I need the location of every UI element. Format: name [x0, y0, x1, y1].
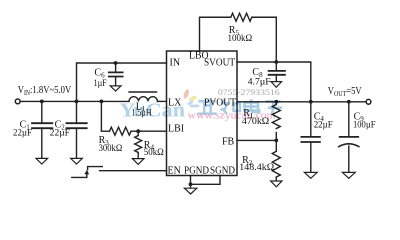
- svg-text:1µF: 1µF: [94, 79, 107, 89]
- wire: SVOUT pin: [237, 62, 311, 102]
- ground (C9): [342, 172, 355, 178]
- wire: FB pin: [237, 139, 276, 141]
- resistor R3: [110, 127, 132, 135]
- watermark: [120, 87, 283, 121]
- ground (R4): [132, 159, 144, 165]
- ground (C4): [304, 172, 317, 178]
- wire: main input rail: [20, 100, 129, 102]
- wire: riser to IN pin: [77, 63, 167, 101]
- svg-text:FB: FB: [222, 136, 235, 147]
- node: R4 junction: [136, 129, 140, 133]
- wire: PVOUT output rail: [237, 101, 366, 103]
- svg-text:100kΩ: 100kΩ: [228, 34, 253, 44]
- wire: LBO pin up: [200, 17, 231, 51]
- capacitor C8: [269, 62, 285, 81]
- input terminal VIN: [15, 99, 20, 104]
- ground (C1): [36, 158, 48, 164]
- watermark logo petals: [183, 89, 200, 107]
- wire: rail from inductor to LX pin: [158, 100, 167, 102]
- svg-text:148.4kΩ: 148.4kΩ: [239, 163, 274, 173]
- node: C2 / IN riser junction: [75, 100, 79, 104]
- wire: riser to R3: [101, 101, 109, 131]
- ground (C8): [271, 82, 282, 88]
- op-amp U1 (IC body): [167, 51, 238, 176]
- output terminal VOUT: [366, 99, 371, 104]
- svg-text:SVOUT: SVOUT: [204, 58, 235, 69]
- svg-text:300kΩ: 300kΩ: [99, 144, 123, 154]
- capacitor C4: [301, 102, 320, 172]
- node: C4 junction: [309, 100, 313, 104]
- node: C6 junction: [114, 61, 118, 65]
- svg-text:0755-27933516: 0755-27933516: [218, 87, 280, 97]
- svg-text:www.szyucan.com: www.szyucan.com: [188, 110, 276, 121]
- ground (C6): [110, 86, 121, 91]
- capacitor C6: [109, 63, 123, 86]
- wire: PGND stub: [190, 176, 192, 185]
- svg-text:50kΩ: 50kΩ: [144, 148, 164, 158]
- svg-text:IN: IN: [170, 58, 181, 69]
- svg-text:22µF: 22µF: [13, 129, 32, 139]
- svg-text:22µF: 22µF: [314, 121, 333, 131]
- svg-text:PVOUT: PVOUT: [204, 98, 236, 109]
- wire: R3 to LBI node: [131, 130, 166, 132]
- ground (IC): [184, 184, 196, 194]
- watermark CJK glyph blocks: [198, 99, 283, 114]
- inductor L1: [129, 92, 158, 101]
- svg-text:YuCan: YuCan: [120, 100, 186, 122]
- svg-text:4.7µF: 4.7µF: [248, 78, 271, 88]
- svg-text:SGND: SGND: [210, 166, 235, 177]
- node: R1 top junction: [274, 100, 278, 104]
- node: FB junction: [274, 139, 278, 143]
- ground (R2): [271, 181, 282, 187]
- node: C1 junction: [40, 100, 44, 104]
- node: C9 junction: [347, 100, 351, 104]
- node: R3 riser junction: [100, 100, 104, 104]
- wire: R5 to SVOUT node: [252, 17, 276, 62]
- node: PGND/SGND junction: [189, 182, 193, 186]
- resistor R5: [231, 13, 252, 21]
- ground (C2): [71, 158, 83, 164]
- wire: switch to EN pin: [100, 170, 167, 172]
- svg-text:100µF: 100µF: [353, 121, 376, 131]
- svg-text:LBI: LBI: [168, 124, 184, 135]
- wire: SGND stub: [191, 176, 221, 185]
- svg-text:PGND: PGND: [184, 166, 209, 177]
- resistor R1: [272, 102, 280, 141]
- capacitor C9 (polarized): [339, 102, 359, 172]
- switch S1: [72, 167, 103, 178]
- svg-text:EN: EN: [168, 166, 181, 177]
- resistor R4: [135, 131, 142, 158]
- capacitor C2: [66, 101, 86, 158]
- svg-text:22µF: 22µF: [50, 129, 70, 139]
- capacitor C1: [32, 101, 52, 158]
- resistor R2: [272, 140, 280, 180]
- node: SVOUT / C8 junction: [274, 60, 278, 64]
